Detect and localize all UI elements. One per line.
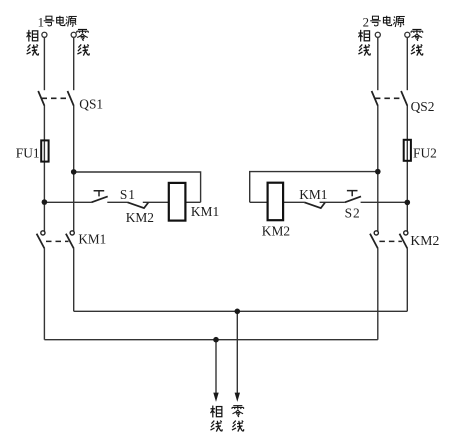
bus neutral y311 [74,310,408,312]
wire L phase upper [43,38,45,90]
wire left rung segment b [107,201,127,203]
terminal L neutral [71,32,76,37]
switch S2 actuator [347,191,358,197]
node L neutral junction [71,169,77,175]
coil KM1 [169,183,186,221]
wire right rung segment c [320,201,345,203]
wire right rung segment d [361,201,408,203]
wire R phase upper [377,38,379,90]
node R phase junction [375,169,381,175]
svg-text:KM1: KM1 [78,231,106,246]
node R neutral junction [405,200,411,206]
wire R phase QS2 to KM2 contact [377,105,379,231]
wire R neutral KM2 to bus1 [406,248,408,311]
fuse FU2 [404,140,411,161]
wire L neutral KM1 to bus1 [73,248,75,311]
contact KM2 main pole1 blade [370,234,378,249]
wire right rung segment b [283,201,304,203]
wire right control rail horizontal [250,172,378,203]
wire left rung segment d [185,201,200,203]
svg-text:FU1: FU1 [16,146,40,161]
terminal R neutral [405,32,410,37]
switch S1 blade [92,196,108,202]
switch QS1 blade phase [38,91,44,106]
svg-text:KM1: KM1 [191,204,219,219]
wire L phase KM1 to bus2 [43,248,45,340]
svg-text:QS1: QS1 [79,97,103,112]
svg-text:S2: S2 [345,206,361,221]
label output neutral 零线 [232,406,244,417]
svg-text:2: 2 [363,16,369,30]
label L neutral 零线 [77,29,89,40]
contact KM1 main pole1 hook [41,231,45,235]
wire R neutral upper [406,38,408,90]
label L phase 相线 [27,30,38,42]
svg-text:KM2: KM2 [262,223,290,238]
label R neutral 零线 [411,29,423,40]
label output phase 相线 [210,406,221,418]
contact KM2 NC aux [128,202,149,208]
svg-text:KM2: KM2 [410,233,439,248]
svg-text:KM2: KM2 [126,210,154,225]
switch S2 blade [345,196,361,202]
wire L neutral upper [73,38,75,90]
contact KM1 NC aux [304,202,325,208]
node bus phase junction [213,337,219,343]
switch QS2 link dashed [375,97,404,99]
fuse FU1 [41,140,48,161]
contact KM1 main pole1 blade [37,234,45,249]
switch S1 actuator [94,191,105,197]
terminal R phase [375,32,380,37]
contact KM2 main pole1 hook [374,231,378,235]
wire L neutral QS1 to KM1 contact [73,105,75,231]
wire R neutral QS2 to KM2 contact [406,105,408,231]
contact KM1 main link dashed [46,240,69,242]
wire left rung segment a [44,201,91,203]
coil KM2 [268,183,284,221]
wire left rung segment c [143,201,169,203]
contact KM2 main pole2 hook [404,231,408,235]
switch QS1 link dashed [42,97,71,99]
switch QS1 blade neutral [68,91,74,106]
terminal L phase [42,32,47,37]
switch QS2 blade neutral [401,91,407,106]
wire neutral output arrow stem [236,311,238,393]
arrow neutral output head [235,393,240,402]
bus phase y340 [44,339,377,341]
wire L phase QS1 to KM1 contact [43,105,45,231]
svg-text:S1: S1 [120,187,136,202]
node L phase junction [42,199,48,205]
svg-text:FU2: FU2 [413,146,437,161]
node bus neutral junction [235,309,241,315]
contact KM1 main pole2 hook [70,231,74,235]
wire phase output arrow stem [215,340,217,394]
contact KM1 main pole2 blade [66,234,74,249]
svg-text:QS2: QS2 [411,99,435,114]
arrow phase output head [213,393,218,402]
contact KM2 main pole2 blade [400,234,408,249]
contact KM2 main link dashed [379,240,402,242]
switch QS2 blade phase [372,91,378,106]
svg-text:1: 1 [38,16,44,30]
wire left control rail horizontal [74,172,201,202]
wire right rung segment a [250,201,268,203]
wire R phase KM2 to bus2 [377,248,379,340]
label R phase 相线 [358,30,369,42]
svg-text:KM1: KM1 [299,187,327,202]
